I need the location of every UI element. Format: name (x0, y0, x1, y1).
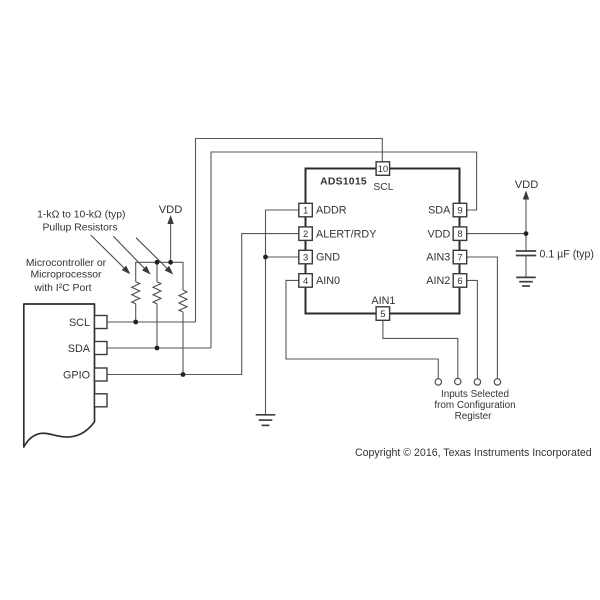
svg-text:VDD: VDD (159, 204, 183, 216)
svg-text:ADS1015: ADS1015 (320, 176, 367, 187)
svg-text:7: 7 (457, 252, 462, 263)
svg-text:AIN3: AIN3 (426, 252, 450, 264)
svg-text:SCL: SCL (69, 317, 90, 329)
svg-text:6: 6 (457, 276, 462, 287)
svg-text:ADDR: ADDR (316, 205, 347, 217)
svg-text:Pullup Resistors: Pullup Resistors (42, 222, 117, 233)
svg-text:with I²C Port: with I²C Port (33, 283, 91, 294)
svg-text:3: 3 (303, 252, 308, 263)
svg-text:AIN1: AIN1 (371, 295, 395, 307)
svg-text:5: 5 (380, 309, 385, 320)
svg-text:SCL: SCL (373, 182, 393, 193)
svg-text:ALERT/RDY: ALERT/RDY (316, 228, 376, 240)
svg-text:1: 1 (303, 205, 308, 216)
svg-text:VDD: VDD (428, 228, 451, 240)
svg-text:from Configuration: from Configuration (434, 400, 515, 411)
svg-text:AIN2: AIN2 (426, 275, 450, 287)
svg-text:Microcontroller or: Microcontroller or (26, 258, 107, 269)
svg-text:SDA: SDA (68, 343, 91, 355)
svg-text:SDA: SDA (428, 205, 451, 217)
svg-text:Copyright © 2016, Texas Instru: Copyright © 2016, Texas Instruments Inco… (355, 447, 592, 459)
svg-text:VDD: VDD (515, 179, 539, 191)
svg-text:1-kΩ to 10-kΩ (typ): 1-kΩ to 10-kΩ (typ) (37, 210, 125, 221)
svg-text:0.1 µF (typ): 0.1 µF (typ) (540, 248, 594, 260)
svg-text:Inputs Selected: Inputs Selected (441, 389, 509, 400)
svg-text:10: 10 (378, 164, 389, 175)
svg-text:GPIO: GPIO (63, 369, 90, 381)
svg-text:9: 9 (457, 205, 462, 216)
svg-text:8: 8 (457, 229, 462, 240)
svg-text:2: 2 (303, 229, 308, 240)
svg-text:Microprocessor: Microprocessor (30, 269, 102, 280)
svg-text:GND: GND (316, 252, 340, 264)
svg-text:4: 4 (303, 276, 308, 287)
svg-text:AIN0: AIN0 (316, 275, 340, 287)
svg-text:Register: Register (455, 411, 492, 422)
